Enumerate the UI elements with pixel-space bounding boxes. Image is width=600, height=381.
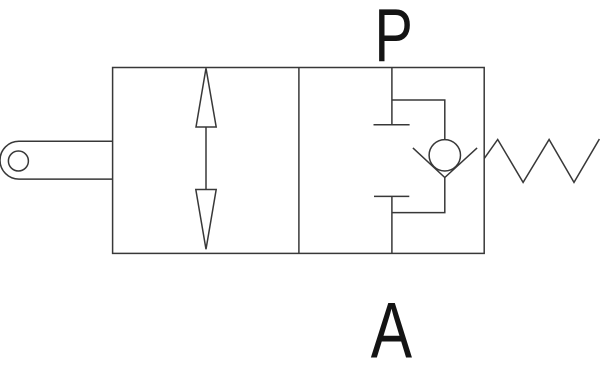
svg-text:P: P [374, 0, 413, 78]
svg-text:A: A [371, 287, 413, 375]
